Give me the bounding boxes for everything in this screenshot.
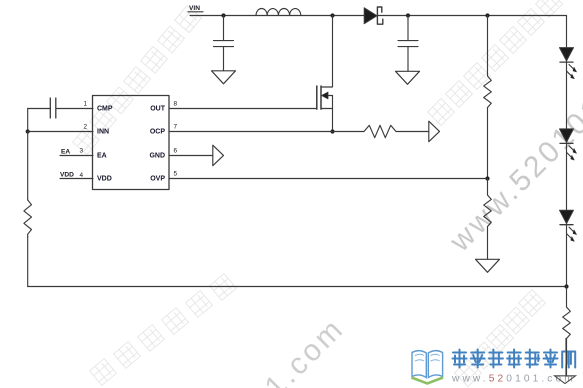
svg-text:www.520101.com: www.520101.com [451,374,576,385]
LED D2 [560,48,577,79]
svg-text:EA: EA [61,149,70,156]
node LED return [564,284,568,288]
svg-text:6: 6 [174,148,178,155]
svg-text:OCP: OCP [150,129,166,136]
node INN [26,129,30,133]
wire R4 to ground [565,339,567,377]
capacitor C1 [214,16,234,71]
ground for C1 [212,71,236,84]
watermark CJK line top-right [428,0,563,125]
IC U1 body [93,96,170,190]
capacitor C3 [28,98,56,118]
IC U1 pin labels [97,106,166,183]
IC U1 pin numbers [79,101,177,180]
node feedback divider top [485,13,489,17]
svg-text:CMP: CMP [97,106,113,113]
LED D3 [560,129,577,160]
wire drain vertical [332,16,334,88]
svg-text:OUT: OUT [150,106,166,113]
wire INN to R1 [27,132,29,201]
watermark CJK line upper-left [73,6,202,155]
ground for LED string [555,376,576,384]
wire bottom rail [28,286,567,288]
resistor R1 [24,200,32,237]
logo book icon page folds [415,354,440,361]
node source OCP [330,129,334,133]
LED D4 [560,210,577,241]
resistor R5 [364,125,396,137]
node top C1 [221,13,225,17]
wire pin4 VDD lead [60,178,93,180]
wire LED ground lead over logo [566,339,568,377]
svg-text:2: 2 [83,124,87,131]
wire divider middle [487,108,489,179]
wire pin2 INN lead [28,131,93,133]
logo book icon green base [412,378,444,384]
node drain [330,13,334,17]
wire pin6 GND lead [169,155,213,157]
svg-text:1: 1 [83,101,87,108]
inductor L1 [256,8,301,15]
wire divider to R3 [487,179,489,196]
ground for C2 [396,71,420,84]
logo book icon left page [412,351,426,378]
resistor R4 [563,307,571,339]
watermark CJK line bottom-right [455,290,546,387]
resistor R2 [484,76,492,108]
ground for divider [476,259,500,272]
capacitor C2 [398,16,418,72]
diode D1 schottky [364,7,383,24]
svg-text:EA: EA [97,153,107,160]
svg-text:VIN: VIN [189,5,200,12]
logo CJK title pseudo-glyphs [453,350,576,368]
svg-text:VDD: VDD [60,172,74,179]
wire pin7 OCP lead [169,131,364,133]
svg-text:8: 8 [174,101,178,108]
wire pin5 OVP lead [169,178,488,180]
net label EA [61,149,70,156]
svg-text:VDD: VDD [97,176,112,183]
wire divider upper lead [487,16,489,77]
svg-text:7: 7 [174,124,178,131]
wire R1 to bottom rail [27,237,29,287]
svg-text:www.520101.com: www.520101.com [128,311,351,388]
wire pin8 OUT to gate [169,108,317,110]
logo book icon right page [428,351,442,378]
wire LED junction to R4 [566,287,568,308]
wire top rail VIN [190,15,566,17]
svg-text:OVP: OVP [150,176,165,183]
wire OCP to arrow [396,131,429,133]
svg-text:5: 5 [174,171,178,178]
svg-text:3: 3 [79,148,83,155]
wire pin1 CMP lead [57,108,94,110]
svg-text:GND: GND [149,153,165,160]
connector arrow GND [213,145,224,166]
wire VIN underline [188,11,203,13]
wire CMP to INN corner [27,109,29,132]
node OVP divider [485,176,489,180]
connector arrow OCP [429,121,440,142]
node cathode C2 [406,13,410,17]
wire R3 to ground [487,227,489,260]
wire LED rail down [566,16,568,287]
net label VIN [189,5,200,12]
svg-text:INN: INN [97,129,109,136]
net label VDD [60,172,74,179]
watermark CJK line bottom-left [90,274,237,386]
resistor R3 [484,195,492,227]
wire pin3 EA lead [60,155,93,157]
transistor Q1 mosfet [317,86,333,132]
